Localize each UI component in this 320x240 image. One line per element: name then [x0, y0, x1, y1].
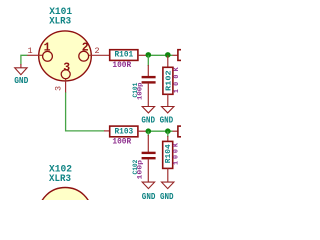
resistor R103 — [110, 126, 138, 137]
svg-text:1: 1 — [44, 42, 51, 55]
partial resistor box row 2 — [178, 126, 186, 137]
svg-text:100p: 100p — [137, 160, 144, 180]
capacitor C101 plate 2 — [142, 81, 156, 83]
X101 pad 3 — [61, 70, 70, 79]
ground symbol GND1 lead — [20, 64, 22, 68]
capacitor C101 wire stub — [147, 55, 149, 66]
wire node A to node B row 1 — [148, 54, 172, 56]
node D junction — [165, 128, 171, 134]
X101 pad 2 — [79, 51, 89, 61]
capacitor C102 top pin — [147, 135, 149, 152]
capacitor C101 top pin — [147, 65, 149, 76]
resistor R101 — [110, 50, 138, 61]
svg-text:GND: GND — [142, 191, 156, 200]
svg-text:GND: GND — [141, 115, 155, 126]
R102 bottom pin — [167, 94, 169, 106]
svg-text:2: 2 — [82, 42, 89, 55]
C101 bottom pin — [147, 84, 149, 107]
capacitor C102 plate 1 — [142, 152, 156, 154]
connector X101 body — [39, 31, 92, 81]
svg-text:100R: 100R — [112, 60, 132, 70]
svg-text:R102: R102 — [165, 70, 173, 91]
X101 pin 2 stub — [89, 54, 110, 56]
R101 right pin — [138, 54, 148, 56]
svg-text:GND: GND — [160, 191, 174, 200]
svg-text:1: 1 — [27, 46, 32, 56]
X101 pin 3 stub — [65, 79, 67, 93]
svg-text:100R: 100R — [112, 136, 132, 146]
partial resistor box row 1 — [178, 50, 186, 61]
svg-text:R103: R103 — [115, 127, 134, 137]
resistor R102 — [163, 67, 173, 94]
C102 bottom pin — [147, 159, 149, 182]
svg-text:100K: 100K — [172, 142, 180, 165]
node C junction — [146, 128, 152, 134]
R104 bottom pin — [167, 168, 169, 182]
resistor R104 — [163, 141, 173, 168]
ground symbol GND1 — [15, 68, 27, 75]
node A junction — [146, 52, 152, 58]
X101 pad 1 — [43, 51, 53, 61]
ground symbol GND2 — [142, 107, 154, 113]
capacitor C101 plate 1 — [142, 76, 156, 78]
ground symbol GND3 — [162, 107, 174, 113]
svg-text:XLR3: XLR3 — [49, 15, 71, 26]
resistor R104 top pin — [167, 136, 169, 142]
X101 pin 1 stub — [27, 54, 43, 56]
ground symbol GND4 — [142, 182, 154, 189]
wire node C to node D row 2 — [148, 130, 172, 132]
R103 right pin — [138, 130, 148, 132]
resistor R104 wire stub — [167, 131, 169, 137]
partial resistor pin row 2 — [173, 130, 178, 132]
connector X102 body — [39, 188, 92, 238]
capacitor C102 plate 2 — [142, 157, 156, 159]
wire pin1 to GND — [21, 55, 27, 65]
svg-text:100p: 100p — [137, 82, 144, 100]
svg-text:R101: R101 — [115, 50, 134, 60]
svg-text:3: 3 — [63, 62, 70, 75]
node B junction — [165, 52, 171, 58]
capacitor C102 wire stub — [147, 131, 149, 136]
partial resistor pin row 1 — [173, 54, 178, 56]
ground symbol GND5 — [162, 182, 174, 189]
svg-text:2: 2 — [94, 46, 99, 56]
svg-text:GND: GND — [14, 75, 29, 86]
svg-text:XLR3: XLR3 — [49, 173, 71, 184]
wire pin3 to R103 — [66, 92, 105, 130]
resistor R102 top pin — [167, 55, 169, 67]
R103 left pin — [104, 130, 110, 132]
svg-text:GND: GND — [160, 115, 174, 126]
svg-text:3: 3 — [54, 86, 64, 91]
